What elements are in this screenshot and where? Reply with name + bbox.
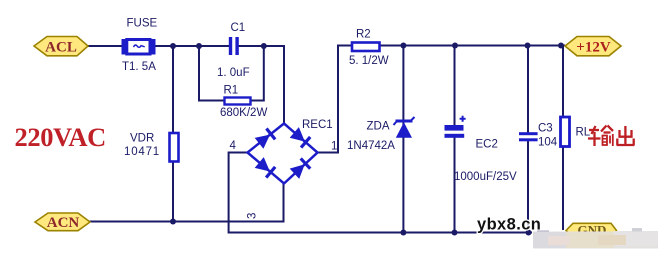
- svg-text:R1: R1: [224, 85, 239, 97]
- svg-text:4: 4: [230, 140, 237, 152]
- svg-text:1: 1: [331, 141, 337, 153]
- svg-text:C3: C3: [538, 123, 553, 135]
- svg-text:RL: RL: [576, 127, 591, 139]
- svg-text:104: 104: [538, 137, 558, 149]
- svg-text:VDR: VDR: [130, 133, 154, 145]
- svg-text:R2: R2: [356, 29, 371, 41]
- svg-text:T1. 5A: T1. 5A: [122, 61, 156, 73]
- svg-text:FUSE: FUSE: [127, 18, 158, 30]
- svg-text:EC2: EC2: [476, 139, 498, 151]
- svg-text:+12V: +12V: [576, 40, 611, 56]
- svg-text:ybx8.cn: ybx8.cn: [477, 216, 541, 234]
- svg-text:1. 0uF: 1. 0uF: [217, 67, 250, 79]
- svg-text:3: 3: [247, 213, 259, 219]
- svg-text:5. 1/2W: 5. 1/2W: [349, 55, 389, 67]
- svg-text:1000uF/25V: 1000uF/25V: [454, 171, 517, 183]
- svg-text:220VAC: 220VAC: [15, 122, 106, 152]
- svg-text:680K/2W: 680K/2W: [220, 107, 267, 119]
- svg-text:REC1: REC1: [302, 119, 333, 131]
- svg-text:C1: C1: [231, 22, 246, 34]
- svg-text:ACL: ACL: [45, 40, 77, 56]
- svg-text:ZDA: ZDA: [367, 121, 390, 133]
- svg-text:ACN: ACN: [47, 215, 80, 231]
- svg-text:1N4742A: 1N4742A: [347, 140, 395, 152]
- svg-text:10471: 10471: [124, 146, 160, 158]
